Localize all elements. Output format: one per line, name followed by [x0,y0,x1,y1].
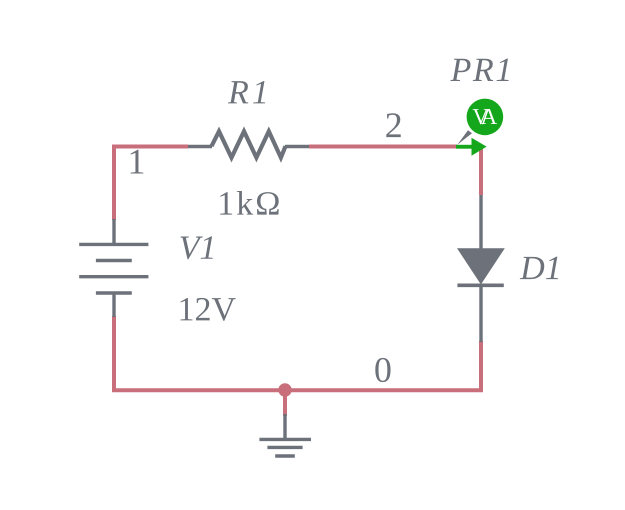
diode D1 refdes label [520,257,558,280]
diode D1 [457,195,505,342]
battery V1 [79,219,148,317]
probe PR1 needle [457,130,472,145]
wire ground stub [283,390,287,416]
node 0 label [375,358,390,382]
junction dot node 0 [278,383,291,396]
wire net2: resistor right to top-right corner, down to diode anode [309,145,457,149]
ground [259,414,311,456]
battery V1 value label 12V [181,298,236,321]
probe PR1 V/A text [473,109,497,124]
resistor R1 refdes label [228,81,265,103]
probe PR1 arrow [456,138,487,156]
resistor R1 [188,131,309,157]
wire net2 vertical to diode [479,147,483,195]
probe PR1 refdes label [450,59,508,81]
battery V1 refdes label [181,236,213,259]
node 1 label [131,150,144,174]
wire net1 left: top-left corner down to battery top [114,147,188,221]
wire net0: diode cathode down, bottom rail, up to battery bottom [114,316,481,390]
node 2 label [386,113,400,137]
probe PR1 circle [467,99,504,136]
resistor R1 value label 1kOhm [220,191,279,215]
